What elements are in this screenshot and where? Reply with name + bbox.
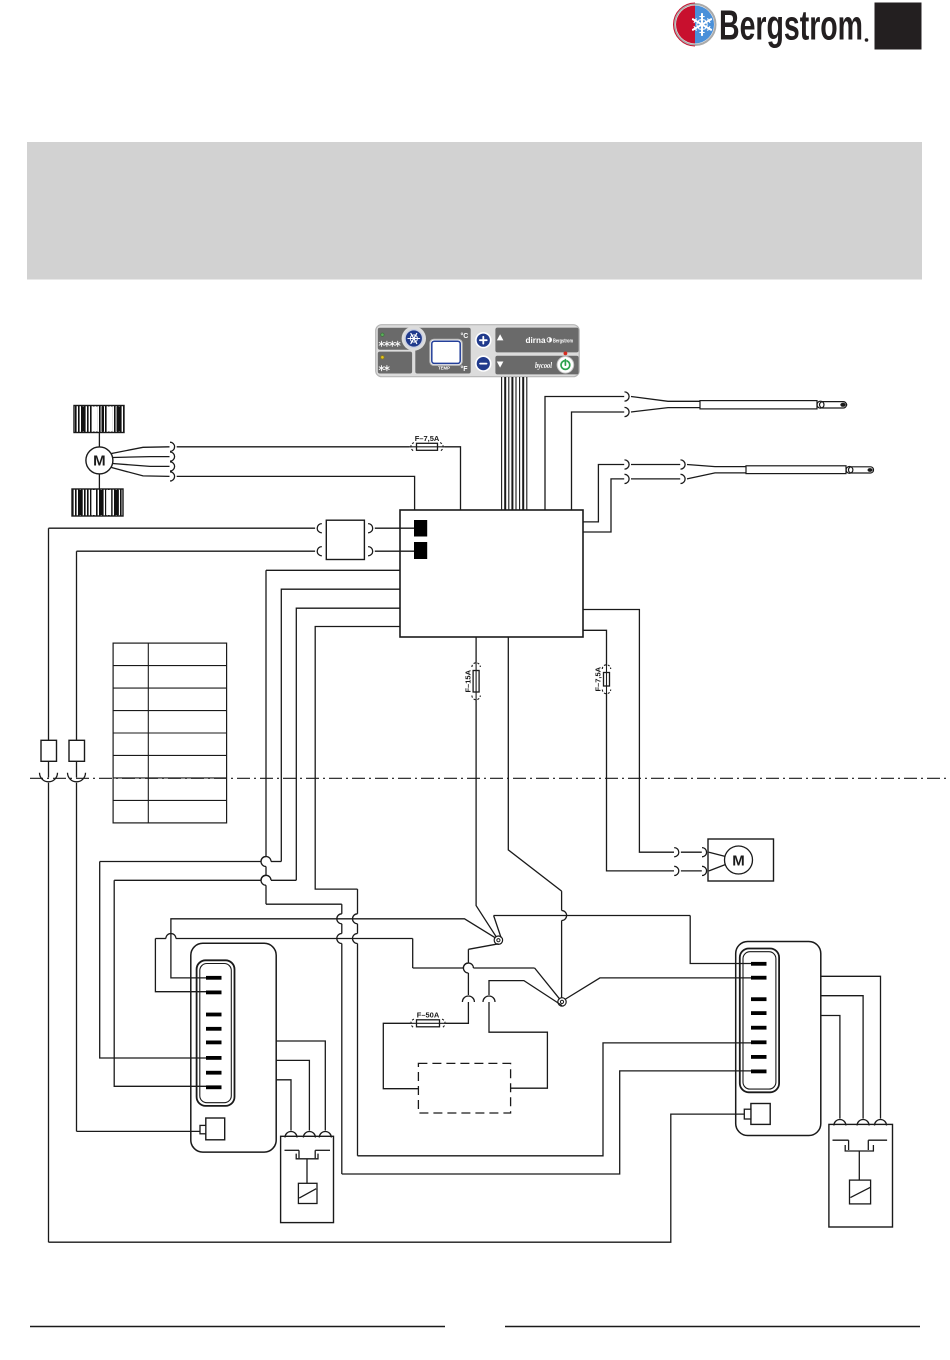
relay K2 box bbox=[829, 1124, 893, 1227]
right board connector strip bbox=[740, 949, 779, 1093]
grey title box bbox=[27, 142, 922, 280]
bulkhead dash-dot separation line bbox=[30, 777, 950, 779]
control unit box U1 bbox=[400, 510, 583, 637]
svg-text:°C: °C bbox=[461, 332, 469, 340]
battery dashed box bbox=[418, 1063, 510, 1113]
evaporator fan wheel top bbox=[74, 406, 124, 433]
right board wires to relay K2 bbox=[821, 976, 881, 1118]
wires into condenser motor bbox=[709, 852, 726, 856]
control panel U-KP (dirna bycool keypad) bbox=[376, 325, 580, 377]
wire W3 unit to left board pin8 bbox=[296, 608, 400, 880]
wire unit to condenser motor line 1 bbox=[583, 610, 674, 853]
relay K1 connector arcs bbox=[285, 1132, 297, 1138]
wire HP switch line 2 bbox=[77, 550, 316, 552]
wire fan-to-motor bbox=[98, 433, 100, 448]
black square top-right bbox=[875, 3, 922, 50]
wire motor-to-fan bbox=[98, 474, 100, 489]
svg-text:F–7,5A: F–7,5A bbox=[594, 666, 603, 691]
relay K1 coil bbox=[298, 1183, 317, 1203]
svg-text:Bergstrom: Bergstrom bbox=[719, 2, 863, 49]
relay K2 contact symbol bbox=[833, 1140, 888, 1180]
condenser motor box bbox=[708, 839, 774, 881]
connector pin block 1 bbox=[414, 520, 427, 537]
wire node B to battery negative with connector bbox=[489, 981, 562, 1006]
node B junction bbox=[558, 998, 566, 1006]
ground rail wire bbox=[49, 1114, 745, 1242]
wire HP switch line 1 bbox=[49, 527, 316, 529]
relay K2 coil bbox=[850, 1180, 871, 1204]
wire motor ground to control unit bbox=[177, 476, 415, 510]
fuse F&#8211;7,5A bbox=[594, 665, 611, 695]
fuse F–7,5A bbox=[410, 434, 445, 451]
wire left board pin1 to node A bbox=[171, 919, 496, 978]
wire feed2 to left aux connector bbox=[77, 1130, 201, 1132]
wire fuse to control unit bbox=[445, 447, 461, 510]
svg-text:F–15A: F–15A bbox=[463, 669, 472, 692]
wire supply feed 1 bbox=[48, 528, 50, 740]
left board connector strip bbox=[197, 960, 235, 1106]
node A junction bbox=[494, 936, 502, 944]
svg-text:Bergstrom: Bergstrom bbox=[553, 339, 573, 345]
duct temp sensor probe 2 bbox=[583, 460, 874, 532]
motor speed wires with connectors bbox=[112, 442, 175, 481]
left board wires to relay K1 bbox=[276, 1041, 325, 1131]
Bergstrom logo icon bbox=[674, 3, 716, 46]
wire switch to unit pin1 bbox=[375, 527, 414, 529]
pressure switch block bbox=[326, 520, 364, 559]
left board pins bbox=[206, 976, 222, 1089]
footer line right bbox=[505, 1326, 920, 1328]
wire unit to node A via fuse F-15A bbox=[475, 637, 477, 663]
wire switch to unit pin2 bbox=[375, 550, 414, 552]
fuse F&#8211;50A bbox=[410, 1011, 447, 1028]
wire W1 unit to right relay board pin8 bbox=[266, 569, 400, 571]
svg-text:bycool: bycool bbox=[535, 360, 552, 370]
wire motor B+ to fuse F-7,5A bbox=[177, 446, 410, 448]
relay K1 contact symbol bbox=[285, 1150, 331, 1183]
ambient temp sensor probe 1 bbox=[545, 392, 847, 510]
svg-text:TEMP: TEMP bbox=[438, 365, 450, 370]
wire F-50A to battery positive bbox=[383, 1023, 418, 1088]
wire W4 unit to right board pin6 bbox=[315, 627, 400, 890]
left board aux connector bbox=[200, 1118, 225, 1140]
wire W2 unit to left board pin6 bbox=[281, 589, 400, 861]
wire node A to right board pin1 bbox=[494, 916, 501, 938]
svg-text:dirna: dirna bbox=[526, 335, 546, 345]
legend table bbox=[113, 643, 227, 823]
connector arcs pressure switch bbox=[317, 524, 322, 533]
wire left board pin2 to node B bbox=[155, 939, 206, 992]
svg-text:°F: °F bbox=[461, 365, 469, 373]
wire node A to F-50A with connector bbox=[468, 944, 498, 950]
right board aux connector bbox=[744, 1104, 770, 1125]
wire supply feed 2 bbox=[76, 551, 78, 740]
left heater board outer housing bbox=[191, 943, 276, 1152]
terminal block T1 bbox=[41, 740, 57, 761]
right heater board outer housing bbox=[736, 942, 821, 1136]
wire node B to right board pin2 bbox=[565, 978, 751, 1000]
evaporator fan wheel bottom bbox=[72, 489, 123, 516]
fuse F&#8211;15A bbox=[463, 663, 480, 701]
terminal block T2 bbox=[69, 740, 85, 761]
bulkhead connector 1 bbox=[48, 761, 50, 777]
wire unit to node B bbox=[508, 637, 561, 891]
relay K2 connector arcs bbox=[834, 1120, 846, 1126]
svg-text:M: M bbox=[93, 453, 106, 470]
wire unit to condenser motor line 2 via fuse F-7,5A bbox=[583, 630, 607, 664]
svg-text:F–7,5A: F–7,5A bbox=[415, 434, 440, 443]
connector pin block 2 bbox=[414, 542, 427, 559]
footer line left bbox=[30, 1326, 445, 1328]
wire bundle from keypad to control unit bbox=[502, 377, 527, 510]
condenser motor M2 bbox=[725, 846, 753, 874]
bulkhead connector 2 bbox=[76, 761, 78, 777]
relay K1 box bbox=[281, 1136, 334, 1222]
blower motor M1 bbox=[86, 447, 113, 474]
svg-text:F–50A: F–50A bbox=[417, 1011, 440, 1020]
svg-text:M: M bbox=[732, 852, 745, 869]
right board pins bbox=[751, 962, 767, 1073]
